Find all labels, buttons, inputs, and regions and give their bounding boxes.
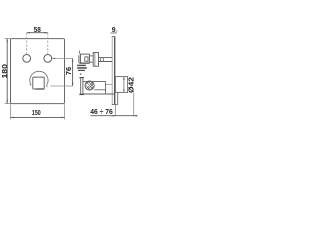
lever rotation arc — [30, 71, 48, 85]
dim 76 leader from right knob — [52, 57, 73, 59]
lever side: top foot — [79, 77, 84, 79]
svg-text:180: 180 — [1, 64, 9, 79]
dim 58 line — [27, 32, 48, 34]
dim 76 arrows — [72, 58, 74, 61]
plate side: back face line — [114, 37, 116, 105]
knob side: flange — [93, 53, 98, 67]
knob side: stem — [99, 58, 113, 62]
dim 58 ext line left (dashed) — [26, 33, 28, 54]
dim 46-76 ext left — [115, 105, 117, 117]
knob side: inner grip detail — [85, 57, 88, 61]
knob side: front cap lines — [79, 55, 80, 64]
dim 58 ext line right (dashed) — [47, 33, 49, 54]
lever side: body right edge — [105, 81, 107, 94]
knob side: top tick — [79, 51, 81, 54]
lever circle hatching — [86, 81, 94, 90]
knob side: stem ticks — [101, 58, 104, 62]
lever square — [33, 77, 44, 89]
dim 9 line — [110, 32, 116, 34]
dim 9 leader slant — [115, 30, 117, 33]
knob side: body — [80, 54, 89, 63]
dim 58 arrows — [27, 32, 30, 34]
tiny text block rows under knob — [79, 63, 89, 64]
dim 150 ext right — [64, 104, 66, 119]
plate side: bottom edge — [112, 104, 118, 106]
step bar right of plate bottom — [117, 92, 119, 104]
dim 46-76 line — [90, 115, 137, 117]
dim 180 ext top — [5, 38, 11, 40]
body dia dim line — [123, 77, 125, 93]
arc arrowhead right — [46, 85, 48, 87]
lever side: bottom foot — [79, 93, 84, 95]
svg-text:58: 58 — [34, 26, 41, 34]
lever side: flange back line — [82, 78, 84, 94]
dim 76 line — [72, 58, 74, 86]
lever square bottom accent — [36, 88, 44, 90]
svg-text:46 ÷ 76: 46 ÷ 76 — [90, 108, 113, 116]
plate outline front — [11, 39, 65, 104]
knob side: neck — [89, 56, 93, 62]
svg-text:76: 76 — [65, 67, 73, 75]
svg-text:Ø42: Ø42 — [128, 77, 136, 93]
plate side: top edge — [112, 36, 116, 38]
lever side: stem line to plate — [106, 84, 113, 86]
svg-text:150: 150 — [32, 109, 41, 117]
lever side: flange front line — [80, 78, 82, 94]
knob circle left — [23, 55, 31, 63]
dim 150 arrows — [11, 117, 14, 119]
dim 76 leader from lever — [50, 85, 72, 87]
lever side: body inner line — [94, 89, 105, 91]
lever side: body top line — [83, 80, 106, 82]
dim 46-76 ext right — [133, 93, 135, 117]
dim 46-76 arrows — [113, 115, 116, 117]
concealed body box — [115, 77, 127, 93]
plate side: front face line — [111, 37, 113, 105]
dim 150 line — [11, 116, 65, 118]
dim 76 leader arrow at knob — [52, 58, 55, 60]
dim 180 arrows — [6, 39, 8, 42]
dim 180 line — [6, 39, 8, 104]
arc arrowhead left — [30, 83, 32, 85]
knob circle right — [44, 55, 52, 63]
dim 150 ext left — [10, 104, 12, 119]
lever side: body bottom line — [83, 93, 115, 95]
knob side: flange inner line — [94, 53, 96, 67]
body dia dim arrows — [123, 77, 125, 80]
dim 180 ext bottom — [5, 103, 11, 105]
lever side: hatched circle — [85, 81, 94, 90]
